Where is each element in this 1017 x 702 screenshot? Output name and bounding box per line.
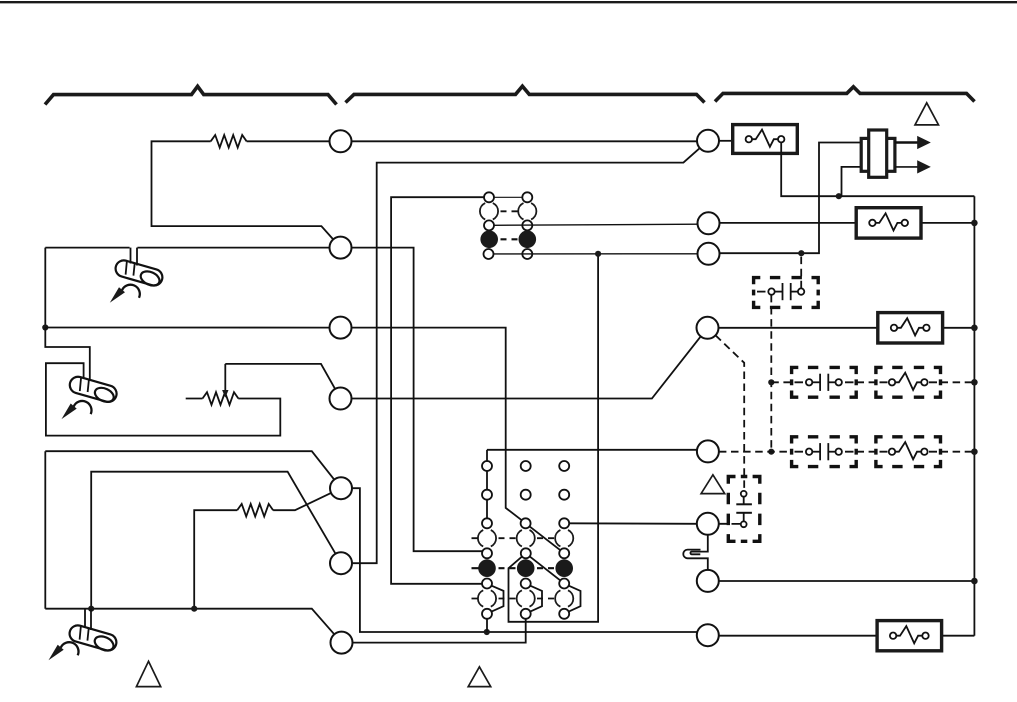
dashes row H [472, 598, 555, 600]
node E junction [595, 251, 601, 257]
connector circle R2 [698, 212, 720, 234]
dashed switch box S3 [792, 437, 857, 467]
brace group 1 [45, 86, 337, 104]
brace group 2 [346, 86, 705, 102]
connector circle L1 [330, 130, 352, 152]
connector circle L2 [330, 237, 352, 259]
dashed row 2: wire [719, 451, 975, 453]
node I junction [768, 379, 774, 385]
wire: lamp block top to R5 [487, 449, 697, 451]
key switch K3 stems [84, 609, 86, 628]
dashed wire: R4 down to pushbutton box S4 [716, 335, 745, 490]
wire: CB1 output down and right to right bus [781, 142, 974, 196]
circuit breaker CB1 box [733, 125, 798, 154]
plug connector P1 inner bar [869, 130, 887, 177]
node A junction [42, 324, 48, 330]
wire: pin A1 to pin B1 [486, 471, 488, 490]
rotate arrow for K2 [62, 401, 92, 419]
wire: lower-left top line to L5 [45, 451, 334, 479]
wire: pin C3 to R6 [569, 522, 697, 525]
wire: R8 to circuit breaker CB4 and bus corner [719, 635, 975, 637]
bypass hook column 3 [569, 586, 581, 612]
right bus vertical [973, 196, 975, 636]
pushbutton dashed box S4 [728, 477, 760, 542]
node C junction [191, 606, 197, 612]
connector circle L7 [331, 632, 353, 654]
wire: node B up and across to L6 [91, 472, 335, 609]
upper lamp (off) D2 [518, 203, 536, 219]
wire: upper pins A link [494, 196, 522, 198]
lower lamps (off) row D [478, 530, 496, 546]
connector circle R4 [697, 317, 719, 339]
fusible link FL outer loop [683, 550, 700, 559]
connector circle L4 [330, 388, 352, 410]
dashes between upper lamps D [501, 210, 518, 212]
bypass hook column 2 [531, 586, 543, 612]
wire: left bus down from key row to node A [44, 248, 46, 328]
connector circle R3 [698, 243, 720, 265]
lower lamp group: pins row G [482, 579, 492, 589]
dashes between upper lamps F [501, 238, 518, 240]
lower lamp group: pins row A [482, 461, 492, 471]
wire: pin B1 to pin C1 [486, 500, 488, 519]
circuit breaker CB3 box [878, 313, 943, 343]
dashed wire: S1 up to node G [800, 257, 802, 289]
upper lamp (on) F1 [480, 231, 498, 249]
interior stubs row 2 [795, 451, 938, 453]
bypass hook column 1 [492, 586, 504, 612]
lower lamp group: pins row I [482, 609, 492, 619]
node L junction on bus [971, 379, 978, 386]
node D junction on bottom bus [484, 629, 490, 635]
wire: resistor R2 left stub [186, 398, 203, 400]
dashed switch box S2 [792, 367, 857, 397]
resistor R3 [237, 504, 273, 517]
wire: R1 to circuit breaker CB1 [719, 140, 733, 142]
wire: L3 right down vertical A diagonal through C2 to E3 [352, 328, 522, 521]
dashes row D [472, 537, 555, 539]
wire: L1 to R1 [352, 140, 698, 142]
output arrow 1 [895, 141, 918, 144]
top rule [0, 1, 1017, 3]
lower lamp group: pins row C [482, 518, 492, 528]
wire: plug lower lead to node F [842, 167, 862, 196]
rotate arrow for K1 [110, 285, 140, 303]
upper lamp group: pin A1 [484, 192, 494, 202]
wire: L2 right down to lamp pin E1 [352, 248, 483, 552]
wire: R6 down to fusible link [701, 535, 708, 552]
node J junction [768, 449, 774, 455]
interior stubs row 1 [795, 381, 938, 383]
dashed switch box S1 [754, 278, 819, 308]
circuit breaker CB2 box [856, 208, 921, 238]
triangle marker bottom-left [136, 661, 160, 686]
upper lamp (on) F2 [519, 231, 537, 249]
node B junction [88, 606, 94, 612]
wire: R2 to right bus through CB2 [720, 222, 975, 224]
upper lamp group: pin A2 [522, 192, 532, 202]
wiper arrow line of R2 [224, 364, 226, 391]
lower lamp group: pins row E [482, 548, 492, 558]
dashes row F [472, 567, 555, 569]
wire: L7 right to lamp pin I2 drop [353, 619, 526, 643]
dashed breaker box CB5 [876, 367, 941, 397]
wire: node C up to resistor R3 and to L5 [194, 510, 237, 609]
connector circle L5 [330, 477, 352, 499]
node N junction on bus [971, 578, 978, 585]
connector circle R7 [697, 570, 719, 592]
wire: resistor R1 to connector L1 [247, 140, 330, 142]
wire: left bus vertical to key K3 row [44, 451, 46, 609]
wire: lamp block top corner down to pin A1 [486, 450, 488, 461]
lower lamp group: pins row B [482, 490, 492, 500]
wire: R7 to right bus [719, 580, 975, 582]
pushbutton S4 contacts [741, 491, 747, 497]
key switch K2 [67, 374, 118, 405]
wire: R4 to circuit breaker CB3 and bus [719, 327, 975, 329]
triangle marker mid-right [701, 475, 725, 494]
wire: pin I1 down to node D [486, 619, 488, 632]
upper lamp group: pin I1, I2 and wire to R3 [484, 249, 494, 259]
wire: key K1 row to L2 [45, 247, 129, 249]
wire: plug top lead left and down to R3 row [720, 143, 862, 254]
wire: L5 right down to bottom bus to R8 [352, 488, 697, 632]
connector circle L6 [330, 552, 352, 574]
connector circle R8 [697, 624, 719, 646]
node G junction [798, 250, 804, 256]
output arrow 2 [895, 166, 918, 168]
connector circle R5 [697, 440, 719, 462]
wire: resistor R1 left, down, across to L2 diagonal [152, 141, 334, 239]
wire: diagonal C2 to E3 [530, 526, 561, 550]
circuit breaker CB4 box [877, 621, 942, 651]
wire: diagonal E2 to G3 [530, 556, 561, 580]
wire: key K3 row [45, 609, 334, 635]
node K junction on bus [971, 325, 978, 332]
upper lamp group: pin E1, E2 and wire to R2 [484, 220, 494, 230]
fusible link FL inner loop [690, 552, 700, 555]
lower lamps (on) row F [478, 559, 496, 577]
lower lamps (off) row H [478, 590, 496, 606]
node M junction on bus [971, 448, 978, 455]
plug connector P1 outer shell [861, 138, 895, 171]
connector circle L3 [330, 317, 352, 339]
wire: resistor R3 to L5 [273, 493, 331, 510]
resistor R1 on top-left wire [211, 135, 247, 148]
dashed row 1: wire [771, 381, 974, 383]
connector circle R6 [697, 513, 719, 535]
wire: L6 right up middle column to R1 diagonal [352, 148, 700, 563]
triangle marker bottom-middle [468, 667, 491, 687]
wire: L4 right to R4 diagonal [352, 336, 701, 398]
wire: key K2 return stem down left loop to resistor R2 [46, 363, 280, 435]
dashed breaker box CB6 [876, 437, 941, 467]
node H junction on bus [971, 220, 978, 227]
upper lamp (off) D1 [480, 203, 498, 219]
wire: wiper to L4 [225, 364, 335, 389]
wire: upper lamp group feed down to lamp pin G1 [391, 197, 484, 584]
node F junction [836, 193, 842, 199]
wire: fusible link to R7 [701, 558, 708, 570]
key switch K1 stems [130, 248, 132, 264]
key switch K3 [67, 623, 118, 654]
dashed wire: S1 down to dashed rows [770, 295, 772, 452]
key switch K1 [113, 258, 164, 289]
wire: R6 to S4 contact [719, 523, 741, 525]
connector circle R1 [697, 130, 719, 152]
triangle marker top-right [915, 103, 939, 125]
wire: vertical B from node E down around lamp block to E2 [509, 254, 599, 622]
brace group 3 [715, 87, 975, 102]
wire: node A to L3 [45, 327, 329, 329]
rotate arrow for K3 [49, 642, 79, 660]
interior stub S1 [757, 291, 766, 293]
resistor R2 (variable) [203, 392, 239, 405]
wire: node A down and right to key K2 stem [45, 328, 90, 381]
